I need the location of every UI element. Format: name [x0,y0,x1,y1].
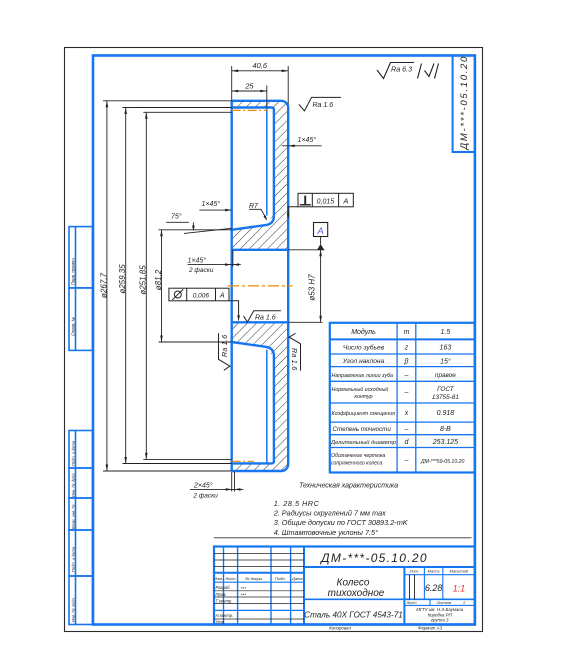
svg-text:1:1: 1:1 [453,584,466,594]
svg-text:Подп.: Подп. [275,576,286,581]
svg-text:Лист: Лист [224,576,236,581]
svg-text:Листов: Листов [436,600,452,605]
drawing frame [93,56,475,625]
svg-text:3. Общие допуски по ГОСТ 30893: 3. Общие допуски по ГОСТ 30893.2-mK [274,518,409,527]
svg-text:–: – [404,372,409,379]
perpendicularity tolerance frame [288,193,353,213]
svg-text:4. Штамповочные уклоны 7.5°: 4. Штамповочные уклоны 7.5° [274,528,378,537]
svg-text:2 фаски: 2 фаски [192,493,218,500]
datum A triangle and box [317,244,324,250]
svg-text:МГТУ им. Н.Э.Баумана: МГТУ им. Н.Э.Баумана [416,607,464,612]
svg-text:–: – [404,426,409,433]
svg-text:1. 28.5 HRC: 1. 28.5 HRC [274,499,320,508]
svg-text:тихоходное: тихоходное [328,588,385,599]
svg-text:Взам. инв. №: Взам. инв. № [71,504,76,529]
left attachment box: inv no podl [69,576,93,625]
svg-text:0,006: 0,006 [193,292,210,299]
svg-text:Формат А3: Формат А3 [418,626,443,631]
svg-text:1×45°: 1×45° [202,200,221,208]
svg-text:1×45°: 1×45° [298,136,317,144]
svg-text:Угол наклона: Угол наклона [342,358,385,365]
svg-text:13755-81: 13755-81 [432,394,459,401]
svg-text:Изм.: Изм. [214,576,223,581]
svg-text:Лист: Лист [405,600,417,605]
left attachment box: vzam inv [69,498,93,530]
svg-text:Дата: Дата [291,576,303,581]
svg-text:Ra 6.3: Ra 6.3 [391,65,412,74]
svg-text:Колесо: Колесо [337,577,370,588]
svg-text:Коробка РП: Коробка РП [428,612,453,617]
rim inner edge lines [266,109,268,464]
title block outer [214,547,475,625]
cylindricity tolerance frame [169,288,239,316]
svg-text:сопряженного колеса: сопряженного колеса [331,461,382,467]
axis centerline [228,285,293,287]
svg-text:–: – [404,390,409,397]
svg-text:Техническая характеристика: Техническая характеристика [299,483,398,490]
svg-text:Масштаб: Масштаб [449,569,468,574]
dimension dia 267.7 [103,101,232,471]
svg-text:163: 163 [440,345,452,352]
svg-text:Инв. № дубл.: Инв. № дубл. [71,472,76,497]
svg-text:1.5: 1.5 [441,329,451,336]
svg-text:0.918: 0.918 [437,410,455,417]
svg-text:Копировал: Копировал [329,626,351,631]
pitch line bottom [232,460,254,462]
svg-text:ДМ-***-05.10.20: ДМ-***-05.10.20 [459,55,470,151]
dimension dia 259.35 [123,108,232,464]
svg-text:Нормальный исходный: Нормальный исходный [332,386,389,393]
svg-text:1×45°: 1×45° [188,257,207,265]
svg-text:Справ. №: Справ. № [71,317,76,336]
dimension dia 251.85 [143,112,231,459]
pitch line top [232,109,268,111]
bore chamfer edge line [232,250,234,267]
dimension 40.6 top [232,66,289,105]
svg-text:z: z [404,345,409,352]
svg-text:ГОСТ: ГОСТ [437,386,455,393]
left attachment box: podp i data 1 [69,431,93,469]
svg-text:ø267,7: ø267,7 [99,272,108,297]
svg-text:ø53 H7: ø53 H7 [308,274,317,301]
left attachment box: perv primen [69,227,93,288]
svg-text:–: – [404,457,409,464]
svg-text:1: 1 [463,600,465,605]
left attachment box: inv no dubl [69,468,93,498]
svg-text:группа 3: группа 3 [431,618,449,623]
roughness Ra 1.6 rotated right [289,333,300,370]
svg-text:15°: 15° [440,357,451,365]
svg-text:0,015: 0,015 [317,198,335,205]
svg-text:Сталь 40Х ГОСТ 4543-71: Сталь 40Х ГОСТ 4543-71 [304,610,403,619]
svg-text:Подп. и дата: Подп. и дата [71,546,76,572]
sheet outer border [65,48,483,632]
svg-text:Ra 1.6: Ra 1.6 [255,315,276,322]
svg-text:контур: контур [354,394,372,400]
svg-text:ø81,2: ø81,2 [154,269,163,290]
svg-text:Направление линии зуба: Направление линии зуба [332,373,394,379]
svg-text:40,6: 40,6 [252,61,267,70]
document number box (top right, rotated) [453,56,475,153]
svg-text:Н.контр.: Н.контр. [216,613,234,618]
svg-text:A: A [342,197,348,206]
svg-text:правое: правое [435,372,456,379]
svg-text:A: A [316,226,323,237]
svg-text:Делительный диаметр: Делительный диаметр [330,439,397,446]
svg-text:ø251,85: ø251,85 [139,265,148,295]
svg-text:Масса: Масса [428,569,441,574]
svg-text:Инв. № подл.: Инв. № подл. [71,597,76,622]
svg-text:Обозначение чертежа: Обозначение чертежа [331,453,385,459]
svg-text:Модуль: Модуль [351,328,376,336]
svg-text:6.28: 6.28 [425,583,443,593]
dimension dia 53 H7 [288,250,324,322]
svg-text:Число зубьев: Число зубьев [343,344,385,352]
svg-text:β: β [404,358,409,365]
wheel outline main contour [232,101,289,471]
svg-text:Лит.: Лит. [409,569,419,574]
general roughness mark top right [377,63,439,79]
svg-text:Степень точности: Степень точности [333,426,392,433]
svg-text:ДМ-***59-05.10.20: ДМ-***59-05.10.20 [420,459,465,465]
dimension 25 top [232,86,267,108]
svg-text:m: m [404,329,410,336]
svg-text:***: *** [241,592,247,597]
svg-text:R7: R7 [249,203,259,210]
svg-text:Ra 1.6: Ra 1.6 [313,102,334,109]
gear parameter table [330,323,475,473]
svg-text:2 фаски: 2 фаски [188,267,214,274]
roughness Ra 1.6 rotated left [219,333,230,370]
dimension dia 81.2 [159,230,232,342]
svg-text:A: A [219,293,225,300]
wheel section hatching [232,101,289,471]
svg-text:ДМ-***-05.10.20: ДМ-***-05.10.20 [319,551,428,565]
liter sub cells [409,575,411,600]
svg-text:Перв. примен.: Перв. примен. [71,257,76,285]
svg-text:ø259,35: ø259,35 [118,264,127,294]
svg-text:Коэффициент смещения: Коэффициент смещения [332,411,396,417]
svg-text:x: x [404,410,409,417]
svg-text:***: *** [241,586,247,591]
svg-text:8-B: 8-B [440,426,451,433]
svg-text:Ra 1.6: Ra 1.6 [222,335,229,357]
svg-text:253.125: 253.125 [432,439,458,446]
svg-text:Ra 1.6: Ra 1.6 [290,348,297,370]
roughness Ra 1.6 on OD [299,97,341,111]
left attachment box: podp i data 2 [69,530,93,576]
svg-text:25: 25 [244,81,254,90]
svg-text:2×45°: 2×45° [193,482,213,490]
roughness Ra 1.6 in bore [244,311,281,322]
svg-text:2. Радиусы скруглений 7 мм max: 2. Радиусы скруглений 7 мм max [273,509,386,518]
separator line above title block [214,537,472,539]
svg-text:Т.контр.: Т.контр. [216,598,233,603]
svg-text:75°: 75° [171,213,182,221]
left attachment box: sprav no [69,288,93,351]
svg-text:Утв.: Утв. [216,619,226,624]
svg-text:Пров.: Пров. [216,592,227,597]
svg-text:№ докум.: № докум. [245,576,263,581]
svg-text:Разраб.: Разраб. [216,585,231,590]
svg-text:Подп. и дата: Подп. и дата [71,440,76,466]
